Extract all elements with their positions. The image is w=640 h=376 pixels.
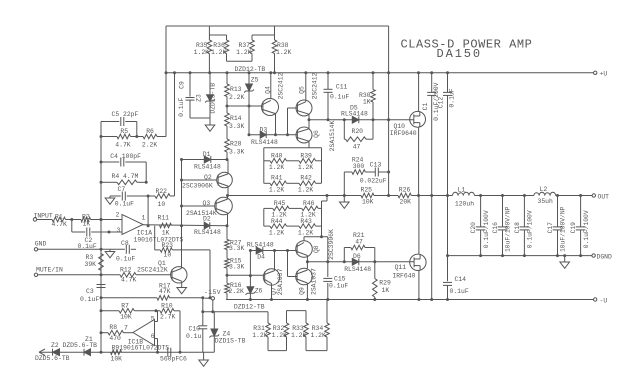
svg-text:R41: R41 — [271, 175, 283, 182]
svg-text:R40: R40 — [271, 152, 283, 159]
svg-text:1.2K: 1.2K — [298, 229, 314, 236]
svg-text:RLS4148: RLS4148 — [344, 266, 371, 273]
svg-text:DZD5.6-TB: DZD5.6-TB — [35, 355, 70, 362]
svg-text:1.2K: 1.2K — [269, 164, 285, 171]
svg-text:R13: R13 — [230, 86, 242, 93]
svg-text:R36: R36 — [213, 42, 225, 49]
svg-text:Q11: Q11 — [395, 264, 407, 271]
svg-text:3.3K: 3.3K — [229, 123, 245, 130]
svg-text:2SC2412: 2SC2412 — [278, 72, 285, 99]
svg-text:R26: R26 — [399, 187, 411, 194]
svg-text:R10: R10 — [161, 303, 173, 310]
svg-text:2SC2412K: 2SC2412K — [137, 266, 168, 273]
svg-text:4.7K: 4.7K — [52, 221, 68, 228]
svg-text:10K: 10K — [120, 313, 132, 320]
svg-text:2.2K: 2.2K — [229, 94, 245, 101]
svg-text:1.2K: 1.2K — [291, 332, 307, 339]
svg-text:R32: R32 — [273, 325, 285, 332]
svg-text:1.2K: 1.2K — [298, 164, 314, 171]
svg-text:R29: R29 — [379, 279, 391, 286]
svg-text:L1: L1 — [458, 187, 466, 194]
svg-text:C9: C9 — [179, 81, 186, 89]
svg-text:R7: R7 — [121, 303, 129, 310]
svg-text:IRF640: IRF640 — [392, 273, 415, 280]
svg-text:2SA1514K: 2SA1514K — [186, 210, 217, 217]
svg-text:R14: R14 — [230, 115, 242, 122]
svg-text:1.2K: 1.2K — [252, 332, 268, 339]
svg-text:20K: 20K — [400, 198, 412, 205]
svg-text:C4 100pF: C4 100pF — [110, 153, 141, 160]
svg-text:DZD1S-TB: DZD1S-TB — [215, 338, 246, 345]
svg-text:IRF9640: IRF9640 — [390, 130, 417, 137]
svg-text:0.1uF: 0.1uF — [80, 296, 99, 303]
svg-text:Z1: Z1 — [85, 336, 93, 343]
svg-text:DZD1S-TB: DZD1S-TB — [210, 83, 217, 114]
svg-text:C19: C19 — [570, 222, 577, 234]
svg-text:-15V: -15V — [204, 289, 221, 296]
svg-text:R25: R25 — [361, 187, 373, 194]
svg-text:OUT: OUT — [598, 194, 610, 201]
svg-text:D4: D4 — [257, 254, 265, 261]
svg-text:1.2K: 1.2K — [269, 187, 285, 194]
svg-text:C17: C17 — [547, 222, 554, 234]
svg-text:0.022uF: 0.022uF — [360, 177, 387, 184]
svg-text:300: 300 — [353, 163, 365, 170]
svg-text:R37: R37 — [238, 42, 250, 49]
svg-text:6: 6 — [151, 333, 155, 340]
svg-text:RLS4148: RLS4148 — [247, 241, 274, 248]
svg-text:Z5: Z5 — [251, 77, 259, 84]
svg-text:C14: C14 — [455, 276, 467, 283]
svg-text:INPUT: INPUT — [34, 212, 53, 219]
svg-text:Q8: Q8 — [313, 245, 320, 253]
svg-text:Z4: Z4 — [223, 330, 231, 337]
svg-text:Q3: Q3 — [203, 200, 211, 207]
svg-text:C15: C15 — [334, 275, 346, 282]
svg-text:R22: R22 — [156, 188, 168, 195]
svg-text:1K: 1K — [162, 229, 170, 236]
svg-text:10K: 10K — [111, 355, 123, 362]
svg-text:0.1uF: 0.1uF — [178, 98, 185, 117]
svg-text:R8: R8 — [109, 324, 117, 331]
svg-text:C13: C13 — [370, 162, 382, 169]
svg-text:R1: R1 — [55, 214, 63, 221]
svg-text:C7: C7 — [118, 186, 126, 193]
svg-text:47: 47 — [353, 144, 361, 151]
svg-text:1K: 1K — [363, 99, 371, 106]
svg-text:-U: -U — [600, 298, 608, 305]
svg-text:1.2K: 1.2K — [269, 229, 285, 236]
svg-text:Q4: Q4 — [265, 86, 272, 94]
svg-text:3.3K: 3.3K — [229, 264, 245, 271]
svg-text:R6: R6 — [146, 128, 154, 135]
svg-text:R46: R46 — [303, 200, 315, 207]
svg-text:D6: D6 — [353, 253, 361, 260]
svg-text:0.1uF/100V: 0.1uF/100V — [527, 210, 534, 248]
svg-text:7: 7 — [124, 324, 128, 331]
svg-text:10uF/100V/NP: 10uF/100V/NP — [505, 206, 512, 252]
svg-text:Q9: Q9 — [298, 287, 305, 295]
svg-text:10K: 10K — [362, 198, 374, 205]
svg-text:R5: R5 — [120, 128, 128, 135]
svg-text:R35: R35 — [196, 42, 208, 49]
svg-text:R11: R11 — [158, 214, 170, 221]
svg-text:GND: GND — [35, 241, 47, 248]
svg-text:C11: C11 — [336, 84, 348, 91]
svg-text:C3: C3 — [86, 288, 94, 295]
svg-text:1.2K: 1.2K — [194, 49, 210, 56]
svg-text:0.1u: 0.1u — [186, 333, 202, 340]
svg-text:35uh: 35uh — [538, 198, 554, 205]
svg-text:Q5: Q5 — [299, 86, 306, 94]
svg-text:2: 2 — [116, 212, 120, 219]
svg-text:Z6: Z6 — [255, 288, 263, 295]
svg-text:R2: R2 — [82, 214, 90, 221]
svg-text:C12: C12 — [438, 97, 445, 109]
svg-text:0.1uF: 0.1uF — [115, 201, 134, 208]
svg-text:1: 1 — [142, 214, 146, 221]
svg-text:R42: R42 — [300, 175, 312, 182]
svg-text:D2: D2 — [203, 216, 211, 223]
svg-text:0.1uF: 0.1uF — [329, 283, 348, 290]
svg-text:1.2K: 1.2K — [211, 49, 227, 56]
svg-text:0.1uF/100V: 0.1uF/100V — [583, 210, 590, 248]
svg-text:2SA1514K: 2SA1514K — [329, 120, 336, 151]
svg-text:3: 3 — [117, 227, 121, 234]
svg-text:C1: C1 — [422, 103, 429, 111]
svg-text:R33: R33 — [292, 325, 304, 332]
svg-text:2SC3906K: 2SC3906K — [328, 229, 335, 260]
svg-text:2.7K: 2.7K — [160, 313, 176, 320]
svg-text:120uh: 120uh — [455, 200, 474, 207]
svg-text:D1: D1 — [203, 151, 211, 158]
svg-text:R38: R38 — [277, 42, 289, 49]
svg-text:2.2K: 2.2K — [229, 288, 245, 295]
svg-text:4.7K: 4.7K — [121, 277, 137, 284]
svg-text:1.2K: 1.2K — [272, 332, 288, 339]
svg-text:R12: R12 — [120, 266, 132, 273]
svg-text:1K: 1K — [382, 287, 390, 294]
svg-text:0.1uF: 0.1uF — [330, 93, 349, 100]
svg-text:R28: R28 — [230, 141, 242, 148]
svg-text:R20: R20 — [352, 128, 364, 135]
svg-text:10uF/100V/NP: 10uF/100V/NP — [560, 206, 567, 252]
svg-text:R45: R45 — [274, 200, 286, 207]
svg-text:MUTE/IN: MUTE/IN — [36, 267, 63, 274]
svg-text:C8: C8 — [121, 240, 129, 247]
svg-text:3.3K: 3.3K — [229, 149, 245, 156]
svg-text:39K: 39K — [85, 261, 97, 268]
svg-text:10: 10 — [158, 201, 166, 208]
svg-text:2.2K: 2.2K — [142, 142, 158, 149]
svg-text:C20: C20 — [470, 222, 477, 234]
svg-text:R23: R23 — [162, 242, 174, 249]
svg-text:0.1uF: 0.1uF — [116, 256, 135, 263]
svg-text:RLS4148: RLS4148 — [341, 110, 368, 117]
svg-text:1.2K: 1.2K — [298, 187, 314, 194]
svg-text:1.2K: 1.2K — [311, 332, 327, 339]
svg-text:19016TL072DTS: 19016TL072DTS — [134, 236, 184, 243]
svg-text:1.2K: 1.2K — [276, 49, 292, 56]
svg-text:0.1uF/100V: 0.1uF/100V — [483, 210, 490, 248]
svg-text:10: 10 — [164, 252, 172, 259]
svg-text:DGND: DGND — [597, 253, 613, 260]
svg-text:47: 47 — [355, 239, 363, 246]
svg-text:R39: R39 — [300, 152, 312, 159]
svg-text:RLS4148: RLS4148 — [194, 164, 221, 171]
svg-text:3.3K: 3.3K — [229, 245, 245, 252]
svg-text:R31: R31 — [253, 325, 265, 332]
svg-text:47K: 47K — [159, 288, 171, 295]
svg-text:Q1: Q1 — [158, 260, 166, 267]
svg-text:5: 5 — [151, 316, 155, 323]
svg-text:Q6: Q6 — [313, 130, 320, 138]
svg-text:Z3: Z3 — [196, 94, 203, 102]
svg-text:2SA1037: 2SA1037 — [277, 268, 284, 295]
svg-text:R34: R34 — [312, 325, 324, 332]
svg-text:0.1uF: 0.1uF — [450, 288, 469, 295]
svg-text:0.1uF: 0.1uF — [449, 88, 456, 107]
svg-text:2SA1037: 2SA1037 — [311, 268, 318, 295]
svg-text:RLS4148: RLS4148 — [251, 139, 278, 146]
svg-text:D3: D3 — [260, 127, 268, 134]
svg-text:470: 470 — [109, 335, 121, 342]
svg-text:C16: C16 — [492, 222, 499, 234]
svg-text:+U: +U — [600, 71, 608, 78]
svg-text:C18: C18 — [514, 222, 521, 234]
svg-text:L2: L2 — [540, 186, 548, 193]
svg-text:R43: R43 — [300, 218, 312, 225]
svg-text:DZD12-TB: DZD12-TB — [235, 66, 266, 73]
svg-text:1.2K: 1.2K — [236, 49, 252, 56]
svg-text:RLS4148: RLS4148 — [194, 229, 221, 236]
svg-text:Q2: Q2 — [204, 174, 212, 181]
svg-text:R44: R44 — [271, 218, 283, 225]
svg-text:DA150: DA150 — [437, 47, 483, 61]
svg-text:2SC3906K: 2SC3906K — [182, 183, 213, 190]
svg-text:1K: 1K — [83, 221, 91, 228]
svg-text:2SC2412: 2SC2412 — [312, 72, 319, 99]
svg-text:4.7K: 4.7K — [115, 142, 131, 149]
svg-text:DZD12-TB: DZD12-TB — [234, 304, 265, 311]
svg-text:560pFC6: 560pFC6 — [160, 355, 187, 362]
svg-text:C10: C10 — [189, 326, 201, 333]
svg-text:C5 22pF: C5 22pF — [112, 111, 139, 118]
svg-text:R4 4.7M: R4 4.7M — [112, 173, 139, 180]
